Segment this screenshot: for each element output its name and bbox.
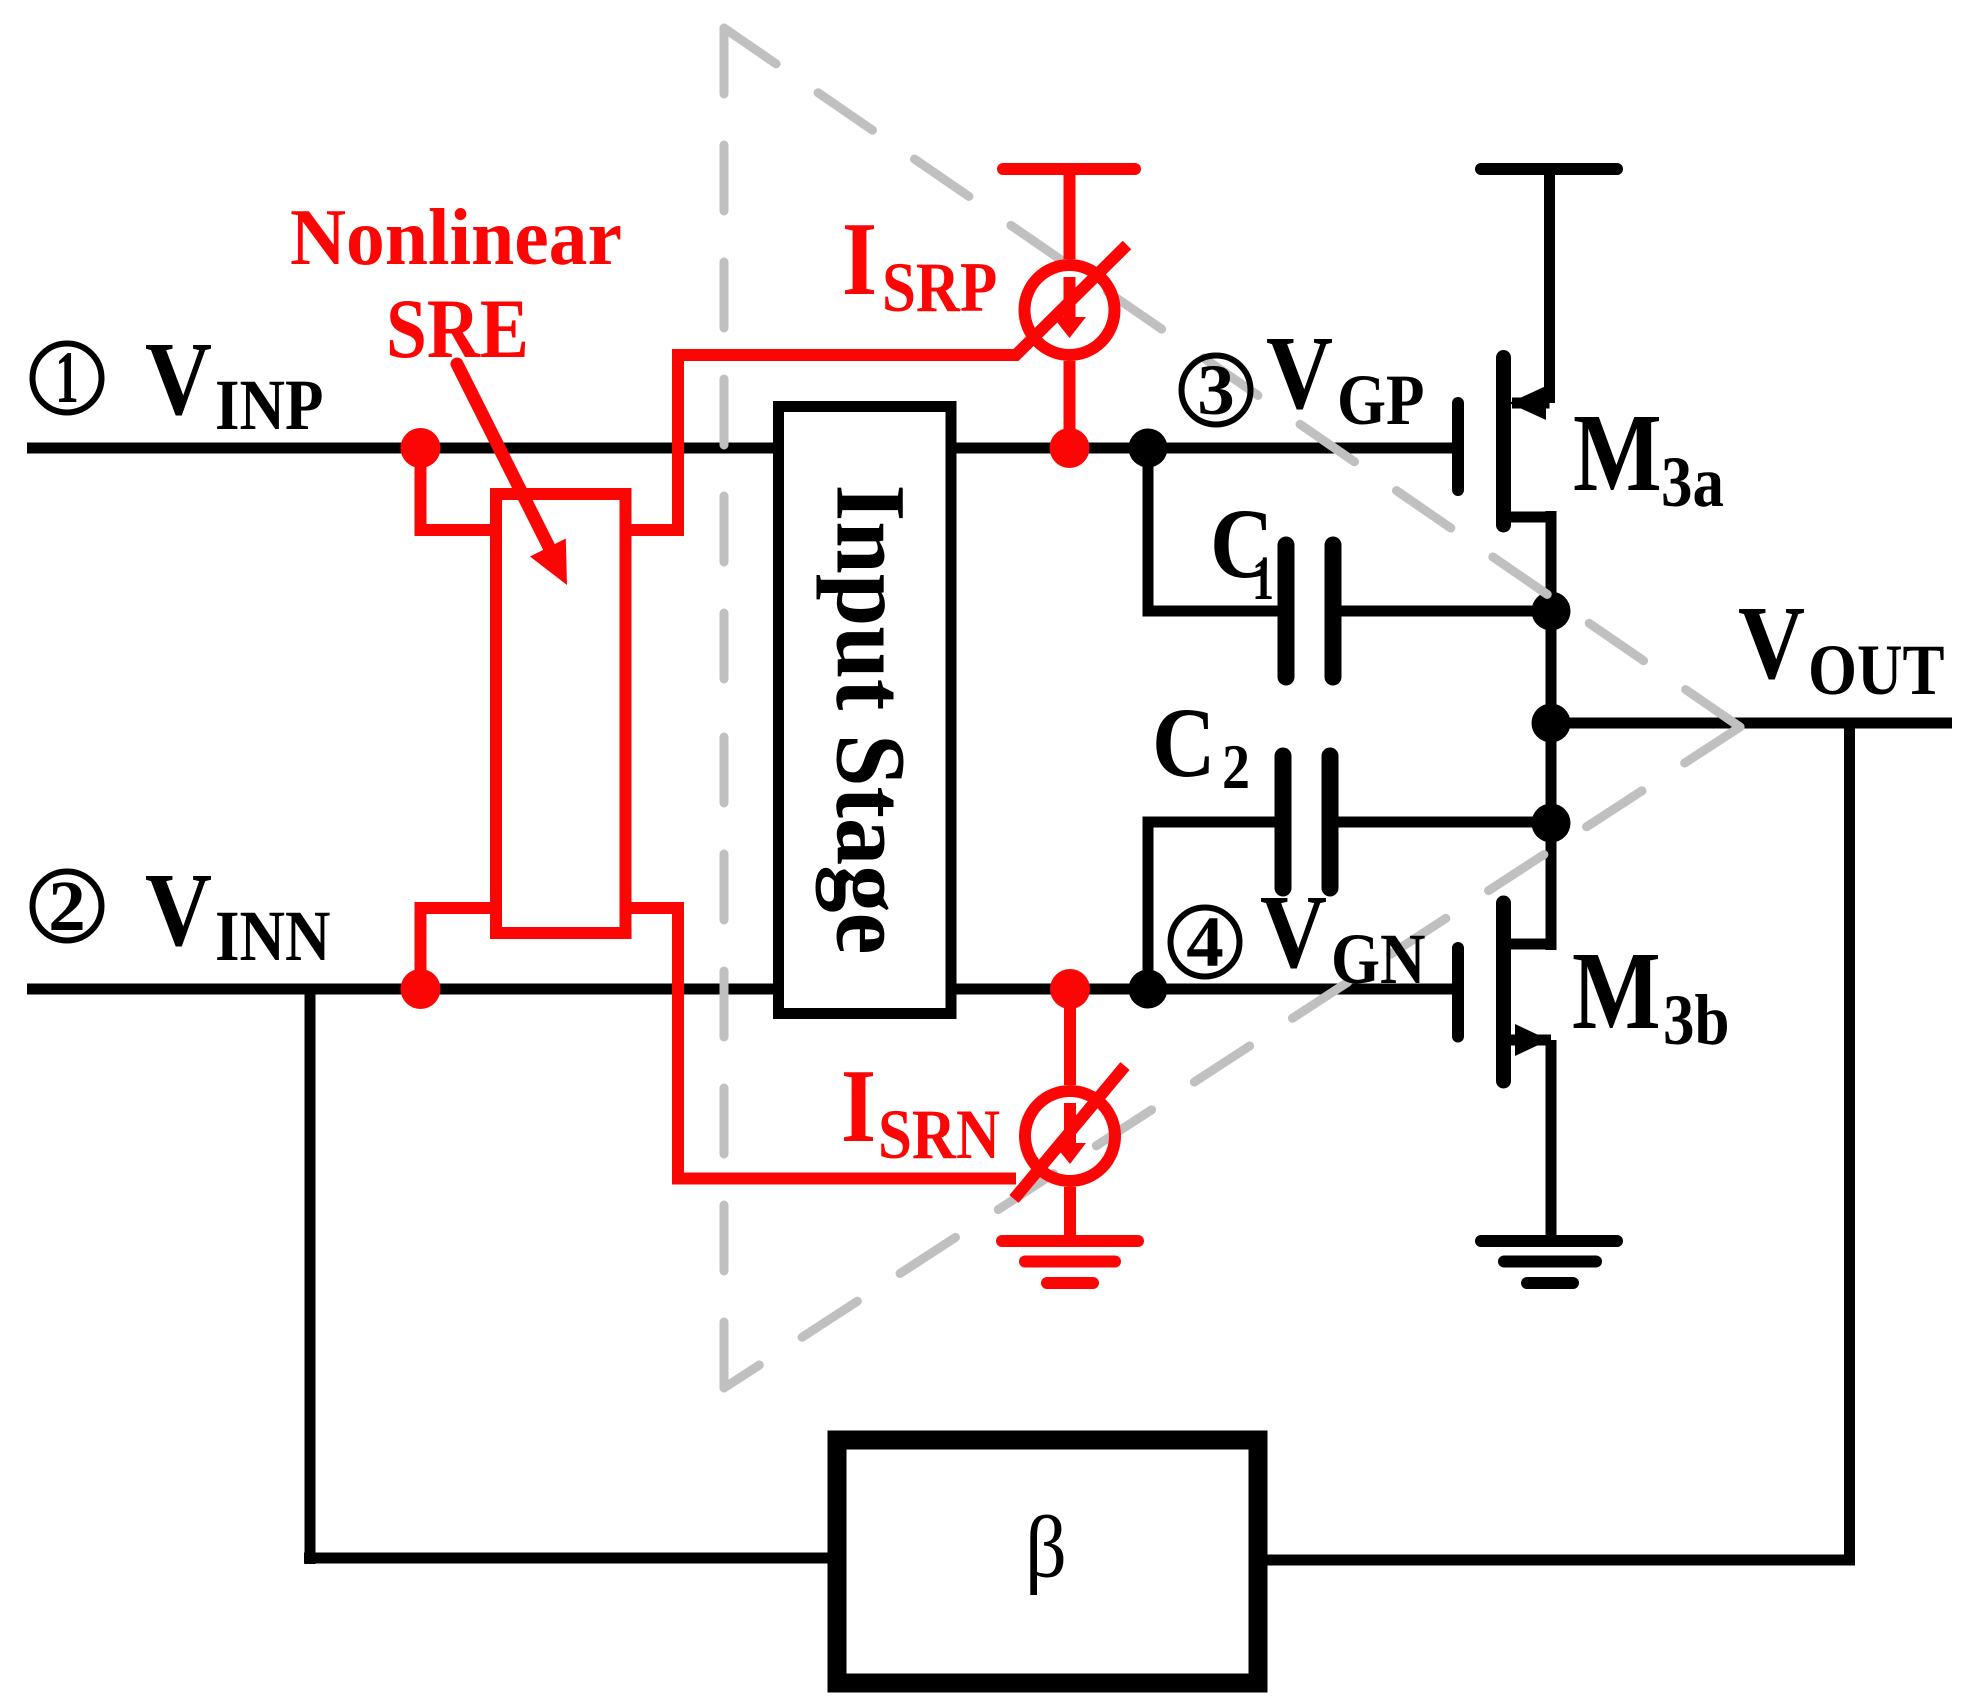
transistor M3a channel bar <box>1496 358 1511 526</box>
svg-text:4: 4 <box>1186 901 1223 981</box>
wire VINP input line <box>27 443 1457 454</box>
node 3 circled label <box>1182 356 1251 425</box>
amplifier triangle top dashed side <box>724 28 1740 727</box>
svg-text:1: 1 <box>1252 547 1274 613</box>
current source ISRP circle <box>1025 265 1115 355</box>
svg-text:2: 2 <box>1222 732 1250 802</box>
current source ISRP arrow <box>1064 277 1076 321</box>
svg-text:INP: INP <box>215 365 323 445</box>
node dot rail VOUT <box>1532 704 1571 743</box>
svg-text:SRN: SRN <box>878 1096 1000 1175</box>
transistor M3a drain lead <box>1504 512 1552 523</box>
svg-text:GN: GN <box>1331 919 1425 999</box>
red node dot ISRN at VGN <box>1050 969 1090 1009</box>
node dot rail C1 <box>1532 592 1571 631</box>
capacitor C2 <box>1275 756 1292 888</box>
svg-text:V: V <box>145 853 212 969</box>
node dot VGP <box>1129 429 1168 468</box>
node 1 circled label <box>33 344 102 413</box>
wire VOUT line <box>1551 718 1952 729</box>
transistor M3a source stem <box>1544 169 1555 403</box>
amplifier triangle left dashed side <box>720 28 729 710</box>
node dot rail C2 <box>1532 804 1571 843</box>
red node dot on VINN <box>401 969 441 1009</box>
wire SRE bottom left stub <box>421 908 498 989</box>
transistor M3a supply bar <box>1481 163 1617 175</box>
amplifier triangle bottom dashed side <box>724 727 1740 1388</box>
svg-text:I: I <box>842 202 877 318</box>
feedback block beta box <box>837 1440 1258 1683</box>
svg-text:M: M <box>1573 392 1662 515</box>
svg-text:β: β <box>1025 1499 1067 1596</box>
svg-text:Nonlinear: Nonlinear <box>290 194 622 282</box>
wire feedback left riser <box>305 989 316 1564</box>
wire feedback bottom left <box>304 1553 837 1564</box>
svg-text:INN: INN <box>215 896 331 976</box>
svg-text:V: V <box>1266 316 1333 432</box>
svg-text:GP: GP <box>1337 360 1424 440</box>
svg-text:3: 3 <box>1197 349 1234 429</box>
svg-text:OUT: OUT <box>1808 630 1945 710</box>
red node dot ISRP at VGP <box>1050 428 1090 468</box>
svg-text:1: 1 <box>55 338 78 419</box>
transistor M3a gate bar <box>1452 403 1464 490</box>
transistor M3b drain lead <box>1504 939 1552 950</box>
ground under M3b <box>1481 1235 1617 1247</box>
svg-text:3b: 3b <box>1663 980 1730 1060</box>
current source ISRN circle <box>1025 1091 1115 1181</box>
svg-text:SRP: SRP <box>882 249 997 328</box>
capacitor C1 <box>1278 545 1295 677</box>
nonlinear SRE block <box>496 494 626 933</box>
wire node3 to C1 <box>1148 448 1281 611</box>
svg-text:3a: 3a <box>1661 442 1724 522</box>
transistor M3b source drop <box>1546 1040 1557 1241</box>
red ground under ISRN <box>1002 1235 1138 1247</box>
annotation arrow to SRE block <box>457 364 551 551</box>
current source ISRN arrow <box>1064 1103 1076 1147</box>
input stage box <box>779 407 952 1014</box>
transistor M3b source lead and arrow <box>1504 1035 1552 1046</box>
svg-text:I: I <box>841 1049 876 1165</box>
svg-text:2: 2 <box>48 865 85 945</box>
current source ISRP bottom stem <box>1064 361 1076 448</box>
svg-text:V: V <box>1260 875 1327 991</box>
wire output rail <box>1546 511 1557 950</box>
red node dot on VINP <box>401 428 441 468</box>
wire node4 to C2 <box>1148 822 1278 989</box>
svg-text:V: V <box>145 322 212 438</box>
wire C1 to output rail <box>1341 606 1551 617</box>
node 4 circled label <box>1171 908 1240 977</box>
current source ISRN top stem <box>1064 989 1076 1085</box>
node 2 circled label <box>33 872 102 941</box>
wire C2 to output rail <box>1338 817 1551 828</box>
svg-text:M: M <box>1572 930 1661 1053</box>
current source ISRP top stem <box>1064 169 1076 259</box>
transistor M3b channel bar <box>1496 903 1511 1081</box>
transistor M3a source lead and arrow <box>1512 398 1550 409</box>
transistor M3b gate bar <box>1452 948 1464 1037</box>
wire SRE bottom right stub to ISRN <box>626 908 1017 1179</box>
svg-text:C: C <box>1152 688 1216 798</box>
wire VINN input line <box>27 984 1457 995</box>
svg-text:Input Stage: Input Stage <box>815 485 926 955</box>
wire SRE top left stub <box>421 448 498 530</box>
wire feedback right riser <box>1844 723 1855 1564</box>
current source ISRN bottom stem <box>1064 1187 1076 1241</box>
svg-text:V: V <box>1738 586 1805 702</box>
wire feedback bottom right <box>1258 1555 1855 1566</box>
current source ISRP supply bar <box>1003 163 1135 175</box>
ISRN adjustable slash <box>1014 1066 1125 1199</box>
node dot VGN <box>1129 970 1168 1009</box>
wire SRE top right stub to ISRP <box>626 245 1128 530</box>
